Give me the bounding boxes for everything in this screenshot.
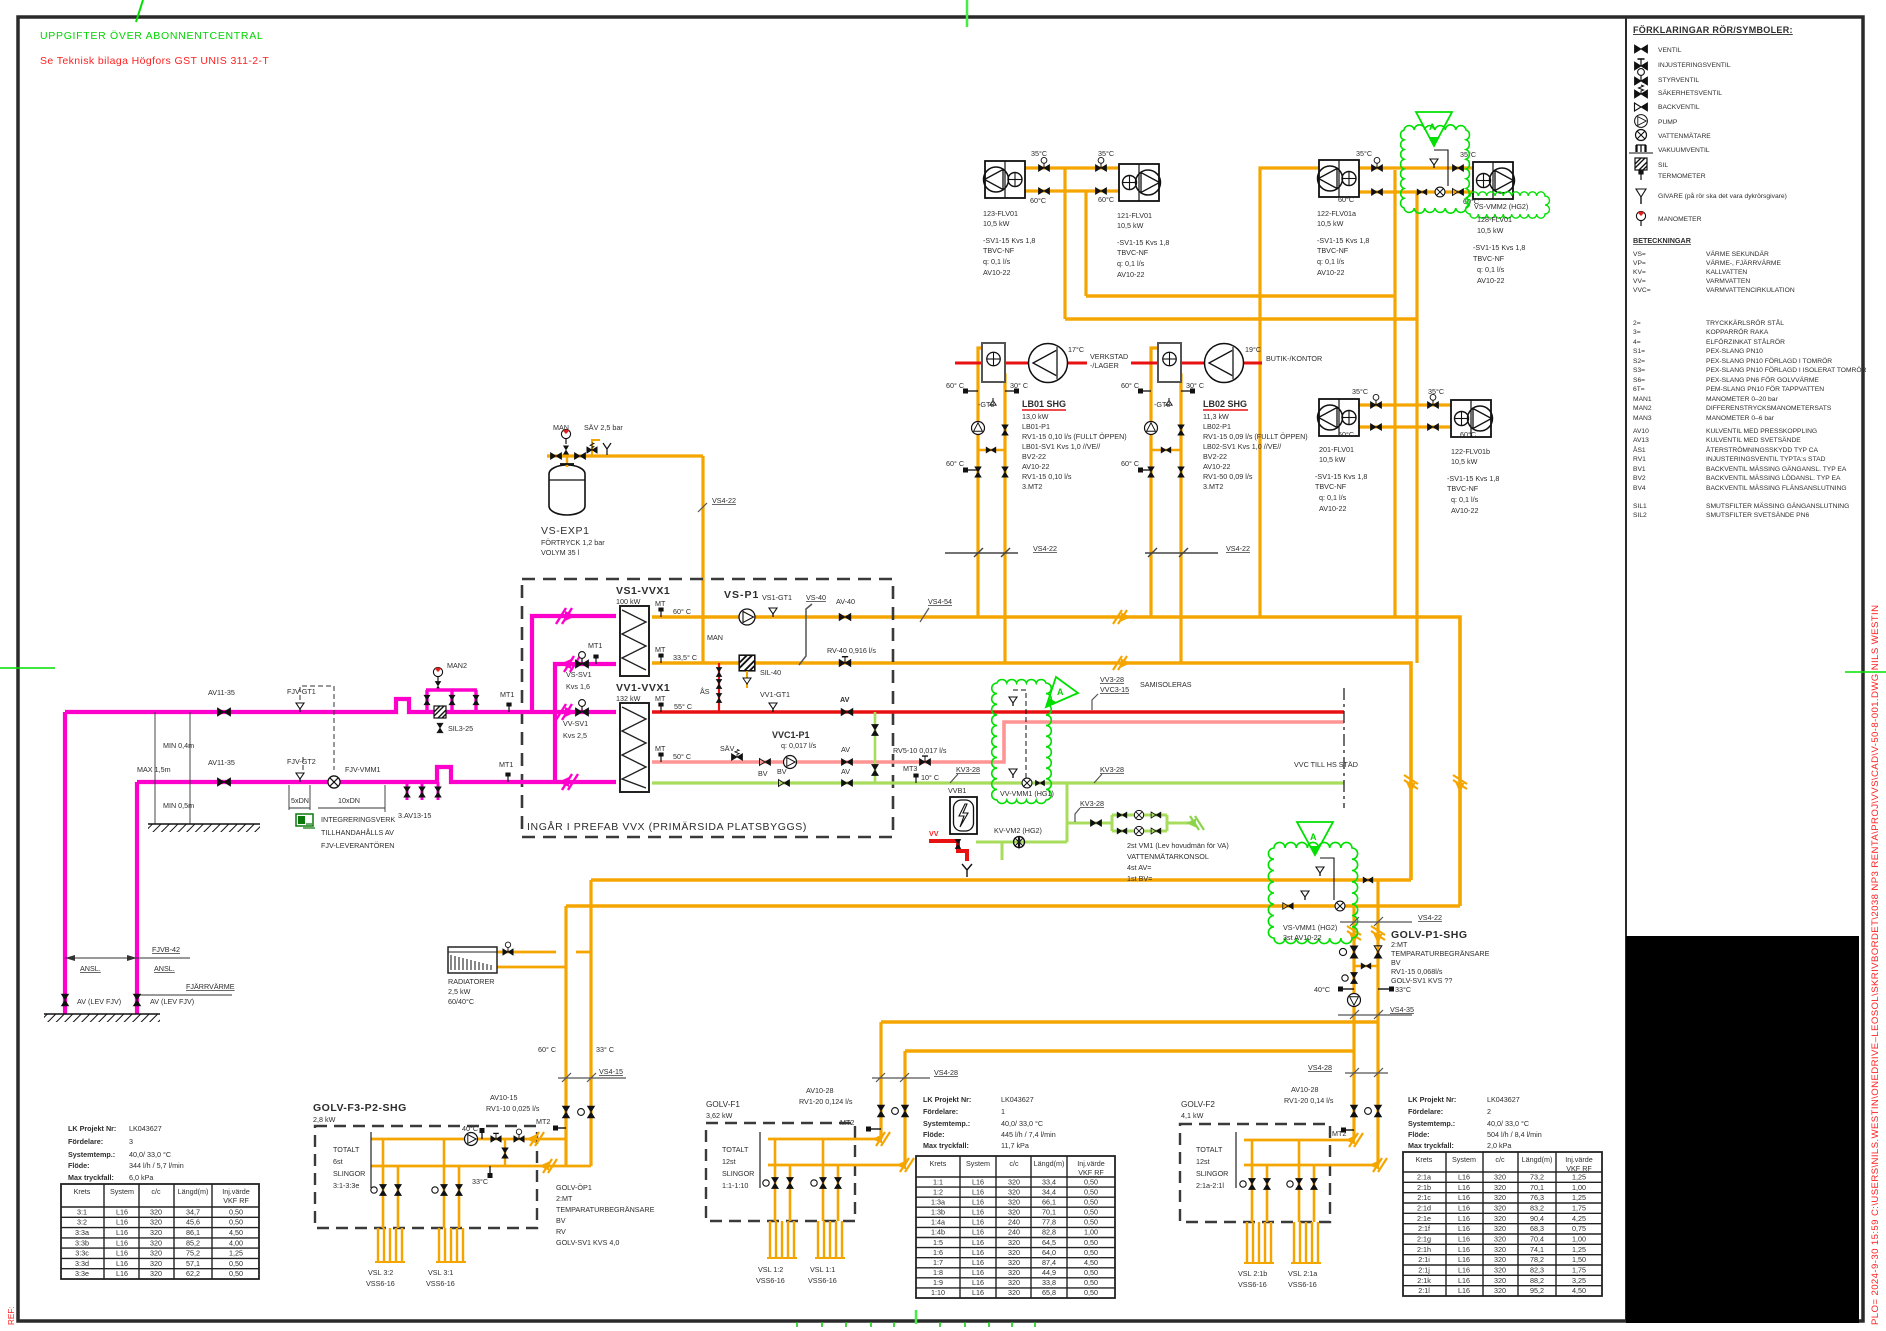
svg-text:MIN 0,4m: MIN 0,4m	[163, 741, 194, 750]
label block 122-FLV01b	[1447, 447, 1499, 515]
svg-text:L16: L16	[116, 1269, 128, 1278]
svg-text:VVC=: VVC=	[1633, 287, 1651, 294]
svg-text:320: 320	[150, 1218, 162, 1227]
revision cloud VS-VMM1	[1268, 842, 1357, 943]
svg-text:AV10-15: AV10-15	[490, 1093, 517, 1102]
svg-text:TOTALT: TOTALT	[333, 1145, 360, 1154]
svg-text:2,5 kW: 2,5 kW	[448, 987, 471, 996]
svg-text:44,9: 44,9	[1042, 1268, 1056, 1277]
svg-text:320: 320	[1008, 1248, 1020, 1257]
svg-text:SIL1: SIL1	[1633, 503, 1647, 510]
svg-text:3:3d: 3:3d	[75, 1259, 89, 1268]
svg-text:10,5 kW: 10,5 kW	[1451, 457, 1478, 466]
svg-text:1: 1	[1001, 1107, 1005, 1116]
svg-text:TBVC-NF: TBVC-NF	[1447, 484, 1479, 493]
wire: trunk H3 supply with right drop	[652, 617, 1460, 906]
svg-text:AV10-28: AV10-28	[1291, 1085, 1318, 1094]
svg-text:INJUSTERINGSVENTIL TYPTA:s STA: INJUSTERINGSVENTIL TYPTA:s STAD	[1706, 456, 1826, 463]
svg-text:60°C: 60°C	[1338, 195, 1354, 204]
svg-text:MAN: MAN	[553, 423, 569, 432]
svg-text:6st: 6st	[333, 1157, 343, 1166]
sensor VV1-GT1	[769, 703, 777, 712]
svg-text:PEX-SLANG PN6 FÖR GOLVVÄRME: PEX-SLANG PN6 FÖR GOLVVÄRME	[1706, 376, 1819, 384]
svg-text:VS-40: VS-40	[806, 593, 826, 602]
bracket VS-40	[799, 604, 812, 665]
svg-text:VS4-22: VS4-22	[1033, 544, 1057, 553]
fan unit 122-FLV01b	[1451, 400, 1493, 437]
wire: supply riser to VS1-VVX1	[532, 616, 616, 712]
label cloud oval VS-VMM2 (HG2)	[1466, 192, 1550, 218]
svg-text:BV2-22: BV2-22	[1203, 452, 1227, 461]
valve pair on upper header F3	[491, 1133, 501, 1142]
valve on GOLV-F1 riser right	[892, 1105, 909, 1117]
svg-text:INJUSTERINGSVENTIL: INJUSTERINGSVENTIL	[1658, 62, 1731, 69]
flow arrow into lower header F3	[526, 1132, 544, 1146]
heat exchanger VS1-VVX1	[620, 606, 649, 676]
svg-text:33° C: 33° C	[596, 1045, 614, 1054]
svg-text:MT1: MT1	[588, 641, 602, 650]
svg-text:LB01-SV1 Kvs 1,0 //VE//: LB01-SV1 Kvs 1,0 //VE//	[1022, 442, 1100, 451]
label VS4-22 tick at GOLV-P1	[1340, 921, 1412, 923]
svg-text:320: 320	[1494, 1245, 1506, 1254]
svg-text:SLINGOR: SLINGOR	[333, 1169, 365, 1178]
shut-off valve AV11-35 return	[218, 778, 231, 786]
svg-text:320: 320	[1494, 1265, 1506, 1274]
svg-text:FJV-GT2: FJV-GT2	[287, 757, 316, 766]
svg-text:VS-VMM2 (HG2): VS-VMM2 (HG2)	[1474, 202, 1528, 211]
wire: 60C pipe group2	[1359, 190, 1473, 193]
svg-text:320: 320	[1494, 1193, 1506, 1202]
flow arrow on H4	[1113, 656, 1131, 670]
svg-text:1:2: 1:2	[933, 1187, 943, 1196]
svg-text:AV11-35: AV11-35	[208, 688, 235, 697]
svg-text:FÖRKLARINGAR RÖR/SYMBOLER:: FÖRKLARINGAR RÖR/SYMBOLER:	[1633, 25, 1793, 35]
pump GOLV-F3	[465, 1133, 478, 1146]
svg-text:78,2: 78,2	[1530, 1255, 1544, 1264]
svg-text:VSL 3:2: VSL 3:2	[368, 1268, 393, 1277]
svg-text:320: 320	[1494, 1214, 1506, 1223]
svg-text:-GT8: -GT8	[1154, 400, 1170, 409]
svg-text:60°C: 60°C	[1098, 195, 1114, 204]
svg-text:55° C: 55° C	[674, 702, 692, 711]
svg-text:LK043627: LK043627	[1001, 1095, 1034, 1104]
LB02 coil box	[1158, 343, 1181, 382]
svg-text:70,1: 70,1	[1530, 1183, 1544, 1192]
LB02 pump	[1145, 422, 1158, 435]
svg-text:BACKVENTIL: BACKVENTIL	[1658, 104, 1700, 111]
svg-text:122-FLV01a: 122-FLV01a	[1317, 209, 1356, 218]
svg-text:Systemtemp.:: Systemtemp.:	[923, 1119, 970, 1128]
svg-text:Systemtemp.:: Systemtemp.:	[1408, 1119, 1455, 1128]
svg-text:-SV1-15 Kvs 1,8: -SV1-15 Kvs 1,8	[983, 236, 1035, 245]
svg-text:1:9: 1:9	[933, 1278, 943, 1287]
wire: FJV supply left riser down to ground	[63, 712, 67, 1014]
svg-text:-/LAGER: -/LAGER	[1090, 361, 1119, 370]
svg-text:0,50: 0,50	[229, 1218, 243, 1227]
wire: LB02 bypass crossbar	[1151, 449, 1181, 451]
svg-text:240: 240	[1008, 1218, 1020, 1227]
svg-text:L16: L16	[972, 1248, 984, 1257]
svg-text:6,0 kPa: 6,0 kPa	[129, 1173, 153, 1182]
wire: trunk H8	[566, 904, 1460, 908]
svg-text:82,3: 82,3	[1530, 1265, 1544, 1274]
svg-text:VSL 1:1: VSL 1:1	[810, 1265, 835, 1274]
svg-text:87,4: 87,4	[1042, 1258, 1056, 1267]
svg-text:35°C: 35°C	[1356, 149, 1372, 158]
valve pair low LB01	[975, 467, 981, 477]
svg-text:RV: RV	[556, 1227, 566, 1236]
wire: trunk H6	[905, 1049, 1354, 1053]
svg-text:40,0/ 33,0 °C: 40,0/ 33,0 °C	[1001, 1119, 1043, 1128]
totalt bracket line	[370, 1132, 372, 1188]
svg-text:MANOMETER: MANOMETER	[1658, 216, 1702, 223]
svg-text:BACKVENTIL MÄSSING FLÄNSANSLUT: BACKVENTIL MÄSSING FLÄNSANSLUTNING	[1706, 484, 1847, 492]
svg-text:AV10-22: AV10-22	[1203, 462, 1230, 471]
svg-text:ELFÖRZINKAT STÅLRÖR: ELFÖRZINKAT STÅLRÖR	[1706, 337, 1785, 346]
water meter KV-VM2	[1014, 837, 1025, 848]
svg-text:MIN 0,5m: MIN 0,5m	[163, 801, 194, 810]
valve on GOLV-F3 riser right	[578, 1106, 595, 1118]
svg-text:85,2: 85,2	[186, 1238, 200, 1247]
flow arrow VS return	[560, 656, 580, 672]
svg-text:12st: 12st	[722, 1157, 736, 1166]
wire: GOLV-F3 lower header	[371, 1165, 591, 1168]
wire: GOLV-F2 lower header	[1244, 1164, 1378, 1167]
svg-text:L16: L16	[972, 1177, 984, 1186]
slinga drop 1 F3	[383, 1139, 398, 1228]
wire: supply pipe 35C group1	[1025, 166, 1119, 169]
svg-text:-SV1-15 Kvs 1,8: -SV1-15 Kvs 1,8	[1447, 474, 1499, 483]
svg-text:VKF RF: VKF RF	[223, 1196, 249, 1205]
svg-text:35°C: 35°C	[1428, 387, 1444, 396]
svg-text:0,50: 0,50	[229, 1207, 243, 1216]
table F3	[61, 1184, 259, 1279]
thermometer MT on VS1 return	[658, 654, 663, 664]
legend symbol: vakuumventil	[1629, 145, 1653, 153]
wire: LB02 supply riser to trunk H3	[1151, 348, 1161, 617]
fan unit 121-FLV01	[1119, 164, 1161, 201]
ground hatch lower	[44, 1013, 160, 1015]
svg-text:S6=: S6=	[1633, 377, 1645, 384]
svg-text:0,75: 0,75	[1572, 1224, 1586, 1233]
legend panel divider	[1625, 17, 1627, 1321]
svg-text:AV11-35: AV11-35	[208, 758, 235, 767]
svg-text:2,8 kW: 2,8 kW	[313, 1115, 336, 1124]
wire: FJV return left riser down to ground	[135, 782, 139, 1014]
svg-text:320: 320	[150, 1238, 162, 1247]
valve 60C left group2	[1371, 189, 1382, 196]
svg-text:PUMP: PUMP	[1658, 119, 1678, 126]
label RADIATORER block	[448, 977, 494, 1006]
svg-text:64,0: 64,0	[1042, 1248, 1056, 1257]
svg-text:MANOMETER 0–6 bar: MANOMETER 0–6 bar	[1706, 415, 1775, 422]
temp tap 33C	[1378, 988, 1391, 990]
svg-text:VP=: VP=	[1633, 260, 1646, 267]
check valve BV on KV	[778, 780, 789, 787]
svg-text:UPPGIFTER ÖVER ABONNENTCENTRAL: UPPGIFTER ÖVER ABONNENTCENTRAL	[40, 30, 263, 42]
label TOTALT slingor F1	[722, 1145, 754, 1190]
svg-text:MAN2: MAN2	[447, 661, 467, 670]
valve pair drop1 F1	[763, 1177, 779, 1188]
revision cloud VV-VMM1	[992, 680, 1052, 804]
valve pair drop2 F2	[1287, 1178, 1303, 1189]
svg-text:2:1c: 2:1c	[1417, 1193, 1431, 1202]
thermometer MT3 on KV	[913, 774, 918, 784]
revision triangle A at VV-VMM1	[1046, 677, 1078, 707]
valve AV (LEV FJV) right	[133, 994, 140, 1006]
check valve BV on VVC	[759, 759, 770, 766]
wire: KV to VVB1 horizontal	[976, 841, 1067, 844]
legend symbol: termometer	[1638, 171, 1643, 181]
sensor VS1-GT1 on H3	[769, 608, 777, 617]
konsol lower branch valves and meter	[1117, 828, 1127, 834]
svg-text:60°C: 60°C	[1338, 430, 1354, 439]
wire: 35C pipe lower pair	[1359, 403, 1451, 406]
svg-text:1,75: 1,75	[1572, 1203, 1586, 1212]
svg-text:KV3-28: KV3-28	[1080, 799, 1104, 808]
svg-text:L16: L16	[972, 1278, 984, 1287]
svg-text:FJV-GT1: FJV-GT1	[287, 687, 316, 696]
strainer SIL-40 on H4	[739, 655, 755, 671]
svg-text:40,0/ 33,0 °C: 40,0/ 33,0 °C	[1487, 1119, 1529, 1128]
svg-text:L16: L16	[1458, 1224, 1470, 1233]
svg-text:1,50: 1,50	[1572, 1255, 1586, 1264]
svg-text:4,1 kW: 4,1 kW	[1181, 1111, 1204, 1120]
svg-text:MT3: MT3	[903, 764, 917, 773]
registration tick green top-right	[966, 0, 969, 27]
svg-text:VS-SV1: VS-SV1	[566, 670, 592, 679]
slinga bundle 2 F1	[818, 1221, 842, 1258]
svg-text:VS4-28: VS4-28	[934, 1068, 958, 1077]
svg-text:3: 3	[129, 1137, 133, 1146]
svg-text:VV3-28: VV3-28	[1100, 675, 1124, 684]
svg-text:LB01-P1: LB01-P1	[1022, 422, 1050, 431]
svg-text:1,25: 1,25	[229, 1249, 243, 1258]
svg-text:KV3-28: KV3-28	[956, 765, 980, 774]
dimension bracket 5xDN	[289, 785, 310, 810]
valve 35C right lower pair	[1427, 394, 1438, 408]
svg-text:-SV1-15 Kvs 1,8: -SV1-15 Kvs 1,8	[1317, 236, 1369, 245]
valve pair drop2 F3	[432, 1184, 448, 1195]
svg-text:1,00: 1,00	[1572, 1234, 1586, 1243]
svg-text:MT2: MT2	[840, 1118, 854, 1127]
svg-text:GOLV-F1: GOLV-F1	[706, 1100, 740, 1109]
svg-text:ÅTERSTRÖMNINGSSKYDD TYP CA: ÅTERSTRÖMNINGSSKYDD TYP CA	[1706, 445, 1819, 454]
valve exp left	[550, 453, 561, 460]
svg-text:AV: AV	[841, 767, 850, 776]
svg-text:AV13: AV13	[1633, 437, 1649, 444]
svg-text:L16: L16	[116, 1228, 128, 1237]
svg-text:60° C: 60° C	[1121, 381, 1139, 390]
svg-text:88,2: 88,2	[1530, 1276, 1544, 1285]
svg-text:TOTALT: TOTALT	[722, 1145, 749, 1154]
svg-text:KV-VM2 (HG2): KV-VM2 (HG2)	[994, 826, 1042, 835]
thermometer MT1 on return main	[505, 773, 510, 783]
svg-text:SIL-40: SIL-40	[760, 668, 781, 677]
svg-text:320: 320	[1008, 1268, 1020, 1277]
valve 35C right group2	[1452, 165, 1463, 172]
slinga drop 2 F1	[823, 1139, 838, 1221]
svg-text:Inj.värde: Inj.värde	[1565, 1155, 1593, 1164]
svg-text:LB02 SHG: LB02 SHG	[1203, 399, 1247, 409]
label block 123-FLV01	[983, 209, 1035, 277]
registration tick green left edge	[0, 667, 55, 669]
svg-text:90,4: 90,4	[1530, 1214, 1544, 1223]
temp tap 40C	[1341, 988, 1354, 990]
svg-text:VV=: VV=	[1633, 278, 1646, 285]
svg-text:VS4-54: VS4-54	[928, 597, 952, 606]
wire: trunk H1	[1086, 294, 1395, 298]
svg-text:33,4: 33,4	[1042, 1177, 1056, 1186]
svg-text:BV: BV	[1391, 958, 1401, 967]
wire: KV cold line (light green)	[652, 781, 1344, 784]
legend symbol: backventil	[1635, 103, 1648, 111]
svg-text:L16: L16	[972, 1258, 984, 1267]
flow arrow on V1378	[1371, 926, 1385, 944]
svg-text:82,8: 82,8	[1042, 1228, 1056, 1237]
svg-text:VS4-22: VS4-22	[712, 496, 736, 505]
svg-text:L16: L16	[972, 1228, 984, 1237]
svg-text:VAKUUMVENTIL: VAKUUMVENTIL	[1658, 147, 1710, 154]
svg-text:Kvs 1,6: Kvs 1,6	[566, 682, 590, 691]
svg-text:0,50: 0,50	[1084, 1278, 1098, 1287]
svg-text:VSS6-16: VSS6-16	[1238, 1280, 1267, 1289]
svg-text:VS-VMM1 (HG2): VS-VMM1 (HG2)	[1283, 923, 1337, 932]
svg-text:L16: L16	[116, 1259, 128, 1268]
svg-text:L16: L16	[1458, 1255, 1470, 1264]
svg-text:-GT8: -GT8	[978, 400, 994, 409]
slinga bundle 1 F3	[378, 1228, 402, 1262]
svg-text:VOLYM 35 l: VOLYM 35 l	[541, 548, 580, 557]
svg-text:3:3e: 3:3e	[75, 1269, 89, 1278]
svg-text:VVC1-P1: VVC1-P1	[772, 730, 810, 740]
svg-text:AV10-22: AV10-22	[1451, 506, 1478, 515]
svg-text:2:MT: 2:MT	[1391, 940, 1408, 949]
valve AV (LEV FJV) left	[61, 994, 68, 1006]
wire: red duct line LB02 right	[1243, 362, 1262, 365]
svg-text:132 kW: 132 kW	[616, 694, 641, 703]
LB01 pump	[972, 422, 985, 435]
valve on GOLV-F2 riser right	[1365, 1105, 1382, 1117]
svg-text:4,50: 4,50	[1084, 1258, 1098, 1267]
wire: FJV supply main	[65, 699, 616, 712]
valve with drain left riser 2	[1342, 972, 1358, 983]
svg-text:33°C: 33°C	[1395, 985, 1411, 994]
svg-text:L16: L16	[1458, 1245, 1470, 1254]
sensor GT8 under LB02 box	[1166, 398, 1172, 405]
svg-text:LB02-SV1 Kvs 1,0 //VE//: LB02-SV1 Kvs 1,0 //VE//	[1203, 442, 1281, 451]
svg-text:3.AV13-15: 3.AV13-15	[398, 811, 431, 820]
wire: 35C pipe group2	[1359, 166, 1473, 169]
heat exchanger VV1-VVX1	[620, 703, 649, 792]
valve on VVB1 red outlet	[955, 839, 961, 848]
svg-text:62,2: 62,2	[186, 1269, 200, 1278]
svg-text:70,4: 70,4	[1530, 1234, 1544, 1243]
svg-text:A: A	[1310, 832, 1317, 842]
legend symbol: styrventil	[1635, 69, 1648, 85]
title block redacted black box	[1626, 936, 1859, 1323]
svg-text:L16: L16	[1458, 1214, 1470, 1223]
dimension lines MIN/MAX	[154, 712, 156, 824]
svg-text:AV: AV	[841, 745, 850, 754]
svg-text:35°C: 35°C	[1352, 387, 1368, 396]
svg-text:Flöde:: Flöde:	[1408, 1130, 1430, 1139]
svg-text:3:3a: 3:3a	[75, 1228, 89, 1237]
svg-text:128-FLV01: 128-FLV01	[1477, 215, 1512, 224]
wire: trunk H5	[881, 1020, 1378, 1024]
svg-text:System: System	[110, 1187, 134, 1196]
svg-text:AV-40: AV-40	[836, 597, 855, 606]
svg-text:L16: L16	[972, 1268, 984, 1277]
svg-text:VS4-28: VS4-28	[1308, 1063, 1332, 1072]
flow arrow on V1411	[1404, 775, 1418, 793]
svg-text:MT: MT	[655, 694, 666, 703]
svg-text:2: 2	[1487, 1107, 1491, 1116]
svg-text:60°C: 60°C	[1030, 196, 1046, 205]
svg-text:83,2: 83,2	[1530, 1203, 1544, 1212]
svg-text:Längd(m): Längd(m)	[178, 1187, 209, 1196]
registration tick green top-left	[136, 0, 143, 22]
svg-text:17°C: 17°C	[1068, 345, 1084, 354]
svg-text:MAN: MAN	[707, 633, 723, 642]
valve 35C left group2	[1371, 157, 1382, 171]
svg-text:0,50: 0,50	[1084, 1268, 1098, 1277]
wire: GOLV-P1 / GOLV-F2 riser right	[1376, 880, 1379, 1165]
svg-text:SIL3-25: SIL3-25	[448, 724, 473, 733]
revision cloud VS-VMM2	[1401, 125, 1470, 213]
sensor FJV-GT1	[296, 703, 304, 712]
wire: main riser VS supply x=1395	[1393, 170, 1396, 617]
label VS4-28 tick F1	[872, 1077, 930, 1079]
drain funnel under SIL-40	[746, 671, 748, 688]
svg-text:320: 320	[1494, 1203, 1506, 1212]
svg-text:LK043627: LK043627	[129, 1124, 162, 1133]
svg-text:3:3b: 3:3b	[75, 1238, 89, 1247]
svg-text:TBVC-NF: TBVC-NF	[983, 246, 1015, 255]
wire: main riser VS return x=1417	[1415, 192, 1418, 663]
svg-text:AV (LEV FJV): AV (LEV FJV)	[77, 997, 121, 1006]
svg-text:RV1-20 0,14 l/s: RV1-20 0,14 l/s	[1284, 1096, 1334, 1105]
svg-text:2st VM1 (Lev hovudmän för VA): 2st VM1 (Lev hovudmän för VA)	[1127, 841, 1229, 850]
svg-text:GOLV-F2: GOLV-F2	[1181, 1100, 1215, 1109]
svg-text:1:1-1:10: 1:1-1:10	[722, 1181, 748, 1190]
svg-text:10,5 kW: 10,5 kW	[1317, 219, 1344, 228]
registration tick green bottom center	[915, 1310, 918, 1324]
table F2	[1403, 1152, 1602, 1296]
svg-text:-SV1-15 Kvs 1,8: -SV1-15 Kvs 1,8	[1473, 243, 1525, 252]
svg-text:VATTENMÄTARE: VATTENMÄTARE	[1658, 132, 1711, 140]
svg-text:3,62 kW: 3,62 kW	[706, 1111, 733, 1120]
svg-text:1:7: 1:7	[933, 1258, 943, 1267]
svg-text:L16: L16	[1458, 1234, 1470, 1243]
svg-text:BETECKNINGAR: BETECKNINGAR	[1633, 236, 1692, 245]
valve RV-40 on H4	[839, 657, 851, 667]
svg-text:70,1: 70,1	[1042, 1208, 1056, 1217]
green dashes along bottom frame	[797, 1322, 1035, 1327]
svg-text:DIFFERENSTRYCKSMANOMETERSATS: DIFFERENSTRYCKSMANOMETERSATS	[1706, 405, 1832, 412]
label TOTALT slingor F3	[333, 1145, 365, 1190]
slinga bundle 1 F1	[770, 1221, 794, 1258]
svg-text:Se Teknisk bilaga Högfors GST: Se Teknisk bilaga Högfors GST UNIS 311-2…	[40, 55, 269, 67]
temp stub 40C	[481, 1132, 483, 1139]
svg-text:2:MT: 2:MT	[556, 1194, 573, 1203]
svg-text:FJV-LEVERANTÖREN: FJV-LEVERANTÖREN	[321, 841, 395, 850]
svg-text:AV10-22: AV10-22	[1022, 462, 1049, 471]
svg-text:0,50: 0,50	[1084, 1197, 1098, 1206]
svg-text:SMUTSFILTER MÄSSING GÄNGANSLUT: SMUTSFILTER MÄSSING GÄNGANSLUTNING	[1706, 502, 1849, 510]
dashed box GOLV-F3	[315, 1126, 537, 1228]
wire: radiator supply	[497, 951, 556, 954]
